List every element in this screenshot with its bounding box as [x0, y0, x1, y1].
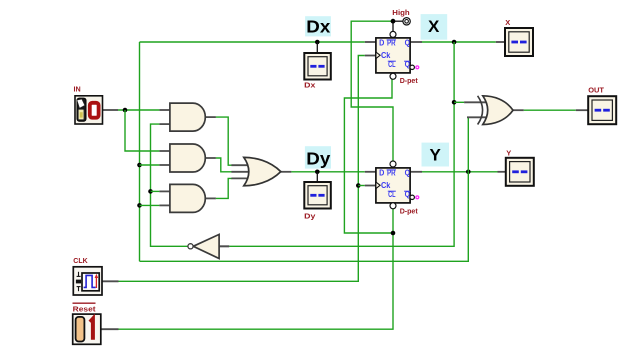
- display Dx: [304, 53, 331, 80]
- display Y: [506, 158, 534, 186]
- wire: stub from Dy junction down to Dy display: [316, 172, 318, 182]
- wire: Y feedback down and across bottom to left column: [140, 172, 469, 261]
- node: X junction: [452, 40, 457, 45]
- push-button Reset: [73, 303, 101, 344]
- svg-text:Ck: Ck: [381, 51, 391, 60]
- connector: High constant (double circle): [403, 18, 410, 25]
- wire: branch to XOR top input: [454, 101, 487, 103]
- display Dy: [304, 182, 331, 209]
- wire: X vertical down to XOR input 1 and NOT input line: [229, 42, 454, 246]
- node: NOT-output junction to AND3 top input: [148, 189, 153, 194]
- svg-text:D: D: [379, 39, 384, 48]
- display X: [505, 28, 533, 56]
- AND gate 2: [159, 144, 205, 172]
- XOR gate: [478, 96, 513, 125]
- flip-flop U1 D-pet (X): [376, 31, 415, 79]
- node: Y feedback junction to AND2 bottom input: [137, 163, 142, 168]
- wire: Y vertical up to XOR input 2: [467, 117, 488, 172]
- wire: branch to FF2 Ck: [358, 185, 376, 187]
- net label: Dx (cyan): [305, 16, 331, 36]
- wire: High net from junction to FF1 PR and FF2 PR: [351, 21, 403, 161]
- wire: OR output (Dy net) to FF2 D input: [281, 171, 376, 173]
- svg-text:Q: Q: [405, 169, 410, 178]
- NOT gate (left facing): [188, 234, 229, 258]
- wire: Dx net horizontal to FF1 D input: [140, 41, 377, 43]
- net label: Y (cyan): [422, 143, 450, 167]
- svg-text:D-pet: D-pet: [400, 207, 418, 216]
- wire: NOT output branch to AND3 top input: [151, 190, 160, 192]
- wire: reset net from Reset to FF2 CL and FF1 CL: [101, 79, 393, 329]
- svg-text:Q: Q: [405, 39, 410, 48]
- net label: Dy (cyan): [305, 146, 331, 168]
- wire: NOT input stub: [219, 245, 229, 247]
- wire: clock net from CLK to FF1 Ck and FF2 Ck: [102, 56, 376, 282]
- wire: branch to AND2 bottom input: [140, 164, 160, 166]
- node: Dx display junction: [315, 40, 320, 45]
- wire: AND1 output to OR input 1: [205, 117, 232, 165]
- AND gate 3: [159, 184, 205, 212]
- svg-text:X: X: [505, 18, 510, 27]
- svg-text:Ck: Ck: [381, 181, 391, 190]
- node: clock junction for FF2 Ck: [356, 183, 361, 188]
- svg-text:CLK: CLK: [73, 256, 88, 265]
- wire: Y feedback vertical (left column) from Dx line down to bottom rail: [139, 42, 141, 261]
- svg-text:OUT: OUT: [588, 86, 604, 95]
- marker: FF1 unconnected Q-bar (magenta): [415, 65, 419, 69]
- svg-text:D: D: [379, 169, 384, 178]
- wire: AND2 output to OR input 2: [205, 158, 232, 172]
- marker: FF2 unconnected Q-bar (magenta): [415, 195, 419, 199]
- svg-text:IN: IN: [74, 85, 81, 94]
- net label: X (cyan): [421, 14, 448, 40]
- node: XOR input junction on X vertical: [452, 100, 457, 105]
- node: Y junction: [466, 170, 471, 175]
- wire: branch to AND3 bottom input: [140, 204, 160, 206]
- clock generator CLK: [73, 256, 102, 295]
- svg-text:Dx: Dx: [304, 81, 316, 90]
- svg-text:Dx: Dx: [306, 17, 330, 37]
- AND gate 1: [159, 103, 205, 131]
- node: Dy display junction: [315, 170, 320, 175]
- display OUT: [588, 96, 616, 124]
- svg-text:X: X: [428, 17, 440, 36]
- flip-flop U2 D-pet (Y): [376, 161, 415, 209]
- svg-text:Dy: Dy: [306, 148, 330, 168]
- wire: X net from FF1 Q to X display: [410, 41, 505, 43]
- wire: Y net from FF2 Q to Y display: [410, 171, 506, 173]
- wire: IN branch down to AND2 top input: [125, 110, 159, 151]
- svg-text:Y: Y: [430, 146, 442, 165]
- node: High junction: [391, 19, 396, 24]
- svg-text:Reset: Reset: [73, 304, 96, 313]
- wire: stub from Dx junction down to Dx display: [316, 42, 318, 53]
- svg-text:High: High: [392, 8, 410, 17]
- wire: XOR output to OUT display: [513, 109, 588, 111]
- node: IN junction: [123, 108, 128, 113]
- svg-text:D-pet: D-pet: [400, 76, 418, 85]
- wire: NOT output up to AND1 bottom input: [151, 124, 188, 246]
- node: Y feedback junction to AND3 bottom input: [137, 203, 142, 208]
- input switch IN: [74, 85, 103, 124]
- wire: IN output to junction and AND1 top input: [102, 109, 159, 111]
- wire: AND3 output to OR input 3: [205, 178, 232, 198]
- OR gate: [231, 157, 280, 185]
- node: reset junction: [391, 231, 396, 236]
- svg-text:Dy: Dy: [304, 212, 316, 221]
- svg-text:Y: Y: [506, 148, 511, 157]
